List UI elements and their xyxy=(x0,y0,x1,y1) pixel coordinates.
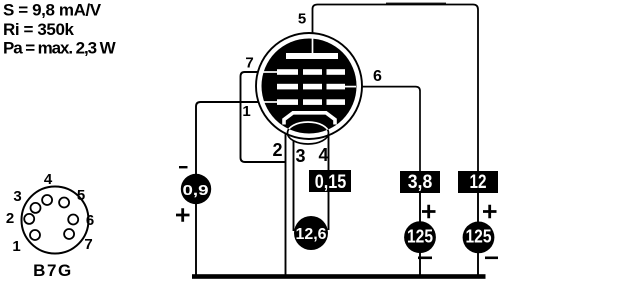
svg-text:0,15: 0,15 xyxy=(315,172,347,193)
wire 0,9 branch lower xyxy=(195,203,197,276)
meter 125 right xyxy=(463,222,495,254)
tube V1 envelope xyxy=(256,33,362,139)
wire pin5 to anode supply (top) xyxy=(313,5,479,172)
socket pin 4 hole xyxy=(42,195,52,205)
plus below 0,9 xyxy=(176,208,190,222)
svg-text:4: 4 xyxy=(44,171,53,188)
plus above right 125 xyxy=(483,205,497,219)
svg-text:2: 2 xyxy=(272,140,282,160)
tube anode plate bar xyxy=(286,53,338,59)
socket pin 7 hole xyxy=(64,229,74,239)
socket pin 1 hole xyxy=(30,230,40,240)
svg-text:3: 3 xyxy=(295,146,305,166)
svg-text:0,9: 0,9 xyxy=(183,182,209,199)
svg-text:B7G: B7G xyxy=(33,261,73,280)
meter 125 left xyxy=(404,221,436,253)
svg-text:125: 125 xyxy=(407,225,433,246)
wire pin6 to screen supply xyxy=(352,87,420,171)
socket pin 6 hole xyxy=(68,215,78,225)
wire pin7 to cathode line xyxy=(241,72,286,162)
meter 12,6 xyxy=(294,216,328,250)
wire pin4 heater xyxy=(328,135,330,230)
box 12 xyxy=(458,171,498,193)
svg-text:7: 7 xyxy=(245,55,253,72)
svg-text:3,8: 3,8 xyxy=(408,172,433,193)
wire screen branch lower xyxy=(419,193,421,276)
minus above 0,9 xyxy=(179,166,188,168)
tube pin1 internal lead xyxy=(264,101,278,103)
socket pin 5 hole xyxy=(59,198,69,208)
socket pin 2 hole xyxy=(24,214,34,224)
svg-text:1: 1 xyxy=(12,238,20,255)
svg-text:5: 5 xyxy=(298,11,306,28)
socket pin 3 hole xyxy=(31,203,41,213)
box 0,15 xyxy=(309,170,351,192)
tube grid g3 row xyxy=(277,69,345,75)
socket B7G outline xyxy=(22,187,89,254)
svg-text:12: 12 xyxy=(470,172,487,193)
minus below right 125 xyxy=(485,257,498,260)
svg-text:4: 4 xyxy=(318,145,328,165)
tube inner disc xyxy=(262,39,357,134)
tube grid g2 row xyxy=(277,84,345,90)
tube grid g1 row xyxy=(277,99,345,105)
svg-text:2: 2 xyxy=(6,210,14,227)
wire pin1 grid to 0,9 branch xyxy=(196,102,262,175)
tube cathode xyxy=(284,113,335,125)
wire pin2 cathode down xyxy=(285,124,287,276)
wire anode branch lower xyxy=(477,193,479,276)
box 3,8 xyxy=(400,171,440,193)
tube heater inside xyxy=(288,122,329,144)
meter 0,9 xyxy=(181,174,211,204)
minus below left 125 xyxy=(418,257,432,260)
svg-text:7: 7 xyxy=(84,236,92,253)
tube pin5 internal lead xyxy=(312,38,314,54)
svg-text:125: 125 xyxy=(466,226,492,247)
wire pin3 heater xyxy=(293,141,295,231)
svg-text:1: 1 xyxy=(242,103,250,120)
svg-text:5: 5 xyxy=(77,187,85,204)
svg-text:3: 3 xyxy=(13,188,21,205)
svg-text:Ri = 350k: Ri = 350k xyxy=(3,20,75,39)
svg-text:S = 9,8 mA/V: S = 9,8 mA/V xyxy=(3,1,102,20)
tube heater outside xyxy=(288,122,329,144)
svg-text:6: 6 xyxy=(86,212,94,229)
plus above left 125 xyxy=(422,205,436,219)
svg-text:6: 6 xyxy=(373,68,382,85)
ground rail xyxy=(192,274,486,279)
svg-text:12,6: 12,6 xyxy=(296,226,327,243)
tube pin6 internal lead xyxy=(345,86,356,88)
svg-text:Pa = max. 2,3 W: Pa = max. 2,3 W xyxy=(3,39,117,58)
wire top scan thickening xyxy=(386,2,446,4)
tube pin7 internal lead xyxy=(263,71,278,73)
